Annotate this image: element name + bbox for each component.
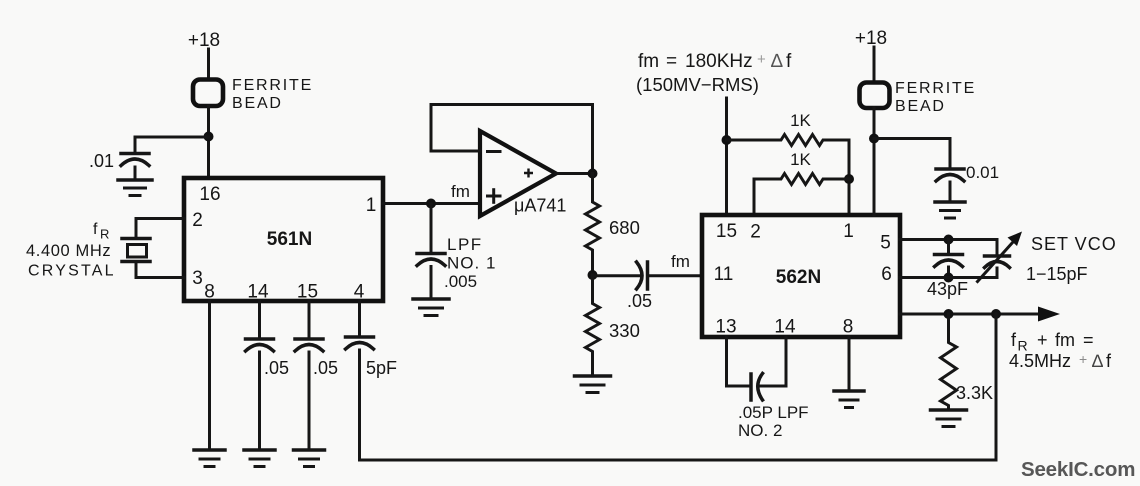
junction C8/pin6 (944, 273, 954, 283)
ground 562N pin 8 (834, 391, 864, 408)
op-amp plus input mark (488, 190, 501, 203)
svg-text:.05: .05 (313, 358, 338, 378)
label .05 coupling (627, 291, 652, 311)
junction node bead/C1 (204, 132, 214, 142)
svg-text:+18: +18 (855, 28, 887, 49)
feedback wire loop (431, 105, 593, 174)
label .05P LPF (738, 403, 809, 422)
svg-text:BEAD: BEAD (232, 95, 283, 112)
svg-text:5: 5 (880, 233, 891, 254)
wire pin 4 down (358, 301, 361, 336)
svg-text:11: 11 (714, 264, 734, 285)
U3 name 562N (776, 267, 821, 288)
junction output/R5 (944, 309, 954, 319)
capacitor C6 .05 coupling (593, 262, 703, 289)
svg-text:.05: .05 (627, 291, 652, 311)
svg-text:2: 2 (750, 222, 761, 243)
capacitor C3 .05 (295, 339, 323, 448)
wire pin 1 to op-amp input (383, 202, 480, 205)
label 680 (609, 217, 640, 238)
ground R2 (575, 376, 611, 393)
label 3.3K (956, 383, 993, 403)
pin 13 label (715, 317, 736, 338)
pin 2 label (750, 222, 761, 243)
svg-text:14: 14 (774, 317, 796, 338)
svg-text:1: 1 (843, 221, 854, 242)
svg-text:4.400 MHz: 4.400 MHz (26, 242, 111, 260)
pin 16 label (199, 184, 220, 205)
pin 8 label (204, 282, 215, 303)
ground pin 8 (194, 450, 225, 467)
resistor R5 3.3K (941, 314, 957, 409)
svg-text:8: 8 (843, 317, 854, 338)
capacitor C10 .05P LPF no.2 (751, 374, 786, 401)
output arrowhead (1038, 307, 1060, 322)
ground C3 (294, 450, 325, 467)
svg-text:fm: fm (1055, 330, 1075, 350)
wire pin 2 to crystal (136, 219, 184, 239)
label R4 1K (790, 150, 811, 169)
svg-text:f: f (93, 221, 98, 238)
label C2 .05 (264, 358, 289, 378)
resistor R2 330 (586, 275, 600, 374)
label CRYSTAL (28, 263, 116, 280)
wire crystal to pin 3 (136, 263, 184, 278)
wire +18 to ferrite bead right (873, 47, 876, 81)
watermark SeekIC.com (1021, 458, 1135, 481)
svg-text:5pF: 5pF (366, 358, 397, 378)
IC U3 562N box (702, 215, 900, 337)
svg-text:+18: +18 (188, 30, 220, 51)
wire R3 to 562N pin 1 (848, 140, 851, 215)
svg-text:3.3K: 3.3K (956, 383, 993, 403)
svg-text:BEAD: BEAD (895, 98, 946, 115)
svg-text:1: 1 (366, 195, 377, 216)
node fm junction (426, 199, 436, 209)
pin 8 label (843, 317, 854, 338)
svg-text:.05P LPF: .05P LPF (738, 403, 809, 422)
ground C7 (935, 202, 965, 218)
svg-text:16: 16 (199, 184, 220, 205)
IC U1 561N box (184, 178, 383, 301)
label fR (93, 221, 109, 242)
svg-text:2: 2 (192, 210, 203, 231)
ground C5 (413, 299, 449, 316)
svg-text:f: f (786, 51, 792, 72)
wire pin 14 down (785, 337, 788, 386)
svg-text:SET VCO: SET VCO (1031, 234, 1117, 254)
svg-text:(150MV−RMS): (150MV−RMS) (636, 74, 759, 95)
label .01 (89, 151, 114, 171)
svg-text:4: 4 (354, 282, 365, 303)
wire pin 8 down (208, 301, 211, 448)
pin 3 label (192, 268, 203, 289)
svg-text:1K: 1K (790, 150, 811, 169)
resistor R4 1K bottom (754, 174, 849, 216)
svg-text:1K: 1K (790, 111, 811, 130)
svg-text:f: f (1011, 330, 1017, 350)
ground R5 (931, 410, 967, 427)
label R3 1K (790, 111, 811, 130)
ground C2 (244, 450, 275, 467)
svg-text:14: 14 (247, 282, 269, 303)
svg-text:1−15pF: 1−15pF (1026, 264, 1088, 284)
svg-text:15: 15 (297, 282, 318, 303)
wire node to C7 (874, 139, 950, 169)
label 0.01 (966, 163, 999, 182)
svg-text:6: 6 (881, 264, 892, 285)
wire bead to 561N pin 16 (207, 106, 210, 178)
svg-text:4.5MHz: 4.5MHz (1009, 351, 1071, 371)
capacitor C1 .01 (121, 154, 149, 179)
ferrite bead FB2 (860, 83, 890, 109)
svg-text:+: + (1079, 351, 1087, 367)
op-amp minus input mark (488, 150, 501, 153)
label fm node (451, 182, 470, 201)
svg-text:.05: .05 (264, 358, 289, 378)
svg-text:.005: .005 (444, 272, 477, 291)
wire pin 6 (900, 276, 997, 279)
capacitor C2 .05 (246, 339, 274, 448)
label FERRITE BEAD left (232, 77, 313, 112)
ferrite bead FB1 (193, 80, 223, 107)
wire 562N pin 8 down (848, 337, 851, 390)
op-amp output plus mark (524, 169, 533, 178)
svg-text:8: 8 (204, 282, 215, 303)
junction pin1 node (844, 174, 854, 184)
svg-text:NO. 2: NO. 2 (738, 421, 782, 440)
label fm = 180KHz +- delta-f (638, 51, 792, 72)
junction pin15 node (722, 135, 732, 145)
label fm coupling (671, 252, 690, 271)
resistor R3 1K top (727, 135, 850, 146)
svg-text:fm: fm (671, 252, 690, 271)
node B junction (588, 270, 598, 280)
wire output line (900, 313, 1040, 316)
ground C1 (118, 180, 152, 196)
pin 1 label (843, 221, 854, 242)
pin 14 label (247, 282, 269, 303)
svg-text:180KHz: 180KHz (685, 51, 753, 72)
variable capacitor C9 (978, 232, 1023, 282)
svg-text:561N: 561N (267, 229, 312, 250)
svg-text:fm: fm (638, 51, 659, 72)
svg-text:13: 13 (715, 317, 736, 338)
capacitor C4 5pF (346, 337, 374, 460)
capacitor C5 .005 LPF no.1 (417, 204, 445, 298)
label fR + fm = (1011, 330, 1094, 354)
supply +18 left (188, 30, 220, 51)
wire pin 13 down (727, 337, 752, 386)
svg-text:∆: ∆ (1092, 351, 1103, 371)
wire +18 to ferrite bead (207, 49, 210, 78)
supply +18 right (855, 28, 887, 49)
svg-text:43pF: 43pF (927, 279, 968, 299)
pin 1 label (366, 195, 377, 216)
wire pin 5 (900, 238, 997, 241)
svg-text:+: + (757, 51, 766, 68)
capacitor C7 0.01 (936, 169, 964, 201)
label 1-15pF (1026, 264, 1088, 284)
svg-text:FERRITE: FERRITE (895, 80, 976, 97)
svg-text:R: R (100, 227, 109, 242)
wire bottom bus (360, 314, 997, 460)
pin 14 label (774, 317, 796, 338)
label 330 (609, 320, 640, 341)
label 4.5MHz + delta-f (1009, 351, 1112, 371)
label 43pF (927, 279, 968, 299)
wire pin 14 down (258, 301, 261, 338)
svg-text:NO. 1: NO. 1 (447, 254, 496, 273)
svg-text:CRYSTAL: CRYSTAL (28, 263, 116, 280)
svg-text:LPF: LPF (447, 235, 483, 254)
resistor R1 680 (586, 174, 600, 276)
label NO. 2 (738, 421, 782, 440)
wire node to C1 (135, 137, 209, 152)
op-amp U2 triangle (480, 131, 556, 216)
capacitor C8 43pF (935, 240, 963, 278)
svg-text:∆: ∆ (771, 51, 783, 72)
pin 11 label (714, 264, 734, 285)
svg-text:0.01: 0.01 (966, 163, 999, 182)
label FERRITE BEAD right (895, 80, 976, 115)
svg-text:15: 15 (716, 221, 737, 242)
svg-text:+: + (1037, 330, 1048, 350)
label LPF NO. 1 .005 (444, 235, 496, 291)
svg-text:330: 330 (609, 320, 640, 341)
svg-text:680: 680 (609, 217, 640, 238)
label SET VCO (1031, 234, 1117, 254)
svg-text:=: = (666, 51, 677, 72)
label (150MV-RMS) (636, 74, 759, 95)
svg-text:SeekIC.com: SeekIC.com (1021, 458, 1135, 481)
junction pin5/C8 (944, 235, 954, 245)
U1 name 561N (267, 229, 312, 250)
label uA741 (514, 196, 566, 216)
svg-text:562N: 562N (776, 267, 821, 288)
label C4 5pF (366, 358, 397, 378)
wire text to 562N pin 15 (725, 98, 728, 215)
svg-text:3: 3 (192, 268, 203, 289)
pin 15 label (297, 282, 318, 303)
label C3 .05 (313, 358, 338, 378)
svg-text:μA741: μA741 (514, 196, 566, 216)
svg-text:FERRITE: FERRITE (232, 77, 313, 94)
crystal Y1 4.400 MHz (122, 239, 150, 262)
wire bead to 562N top (873, 108, 876, 215)
wire pin 15 down (308, 301, 311, 338)
pin 6 label (881, 264, 892, 285)
label 4.400 MHz (26, 242, 111, 260)
svg-text:=: = (1083, 330, 1094, 350)
svg-text:fm: fm (451, 182, 470, 201)
svg-text:.01: .01 (89, 151, 114, 171)
junction bead node (869, 134, 879, 144)
junction output/bus (991, 309, 1001, 319)
pin 4 label (354, 282, 365, 303)
pin 5 label (880, 233, 891, 254)
wire op-amp output (556, 172, 593, 175)
node output junction (588, 169, 598, 179)
svg-text:f: f (1106, 351, 1112, 371)
pin 2 label (192, 210, 203, 231)
pin 15 label (716, 221, 737, 242)
